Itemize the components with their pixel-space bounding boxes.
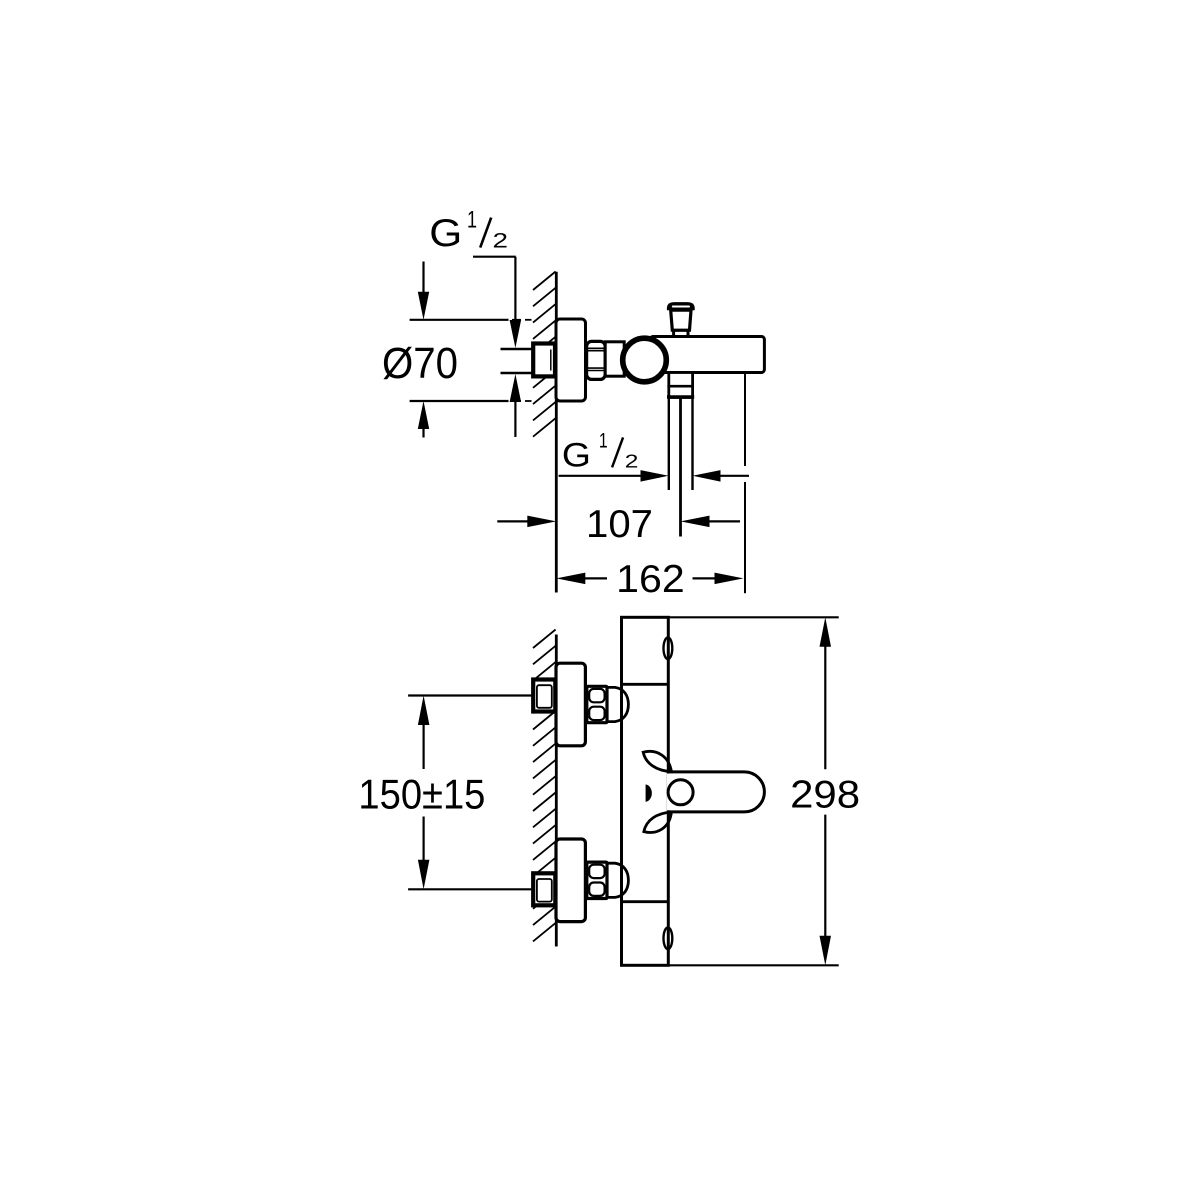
svg-text:G: G [429, 212, 462, 255]
dim 107 left arrow [527, 516, 556, 528]
square nut inner line [537, 685, 552, 708]
thermostat cartridge circle [623, 338, 667, 382]
dim 150 line lower [423, 817, 425, 861]
supply pipe stub bottom edge [501, 372, 534, 375]
hose centerline [679, 398, 682, 537]
svg-text:G: G [562, 437, 591, 475]
wall face line (top view) [555, 272, 558, 593]
extension line bath outlet axis upper [744, 373, 746, 467]
hose nut top line [667, 385, 694, 388]
valve body (top view) [650, 337, 764, 373]
O70 bottom extension line [410, 400, 509, 402]
O70 top ext dash [512, 319, 521, 321]
dim 150 line upper [423, 725, 425, 770]
dim 107 right tail [709, 520, 741, 522]
dim 298 line lower [824, 815, 826, 937]
diverter knob collar [674, 330, 688, 336]
svg-text:1: 1 [599, 430, 608, 453]
dim 162 right arrow [715, 573, 744, 585]
O70 dim line lower tail [422, 428, 424, 438]
hex nut lower facet window [589, 707, 604, 720]
svg-text:2: 2 [493, 229, 509, 253]
hex nut upper facet window [589, 689, 604, 702]
arrow tail below [514, 401, 516, 438]
svg-text:1: 1 [467, 206, 477, 233]
hex nut frame [587, 686, 607, 722]
body section line bottom [622, 900, 669, 903]
union hex nut (top view) [587, 341, 606, 379]
diverter knob (front view) [668, 780, 693, 805]
O70 dim line upper tail [422, 262, 424, 294]
dim 298 arrow up [820, 617, 832, 647]
O70 top extension line [410, 319, 509, 321]
dim 298 arrow down [820, 936, 832, 966]
escutcheon flange (front view) [556, 839, 585, 922]
O70 arrow down [418, 292, 429, 320]
wall face line (front view) [555, 635, 558, 947]
union connector piece [605, 342, 624, 376]
G1/2 outlet arrow right [641, 470, 669, 482]
dim 162 line left segment [584, 577, 607, 579]
hose right edge [691, 398, 693, 491]
diverter knob cap [667, 302, 695, 310]
leader under G1/2 label [473, 256, 516, 258]
square wall-union nut (front view) [533, 680, 555, 712]
G1/2 outlet dim line left [559, 475, 641, 477]
diverter knob neck [671, 310, 691, 330]
bath spout (mask) [667, 774, 745, 811]
square nut inner facet line [550, 350, 552, 371]
wall (hatched, top view) [533, 272, 556, 291]
svg-text:162: 162 [616, 558, 685, 601]
square wall-union nut (top view) [533, 344, 555, 377]
square wall-union nut (front view) [533, 873, 555, 905]
extension line bath outlet axis lower [744, 482, 746, 593]
wall (hatched, front view) [533, 630, 556, 649]
hex nut facet line [588, 347, 605, 349]
dim 150 top extension line [408, 694, 532, 696]
escutcheon flange (front view) [556, 663, 585, 746]
port boss bottom (edge-on ellipse) [664, 928, 673, 950]
hose left edge [668, 398, 670, 491]
escutcheon flange (top view) [556, 319, 586, 401]
dim 162 left arrow [556, 573, 585, 585]
G1/2 outlet arrow left [693, 470, 721, 482]
dim 150 bottom extension line [408, 888, 532, 890]
union dome [607, 687, 628, 721]
O70 bottom ext dash [525, 400, 532, 402]
svg-text:107: 107 [586, 503, 653, 546]
label G 1/2 (wall connection thread) [429, 206, 508, 255]
G1/2 outlet dim line right [720, 475, 750, 477]
body section line top [622, 683, 669, 686]
hex nut facet line [588, 350, 605, 352]
union dome [607, 863, 628, 897]
O70 top ext dash [525, 319, 532, 321]
dim 298 bottom extension [668, 964, 838, 966]
svg-text:298: 298 [790, 774, 860, 817]
lower lever leaf [644, 812, 672, 832]
square nut inner line [537, 879, 552, 902]
dim 150 arrow down [418, 860, 430, 890]
hex nut frame [587, 862, 607, 898]
hex nut facet line [588, 367, 605, 369]
bath spout [668, 772, 764, 812]
dim 107 right arrow [681, 516, 710, 528]
svg-text:2: 2 [625, 451, 639, 472]
hex nut upper facet window [589, 865, 604, 878]
dim 150 arrow up [418, 696, 430, 726]
thermostat body (front view) [622, 617, 669, 965]
supply pipe stub top edge [501, 348, 534, 351]
hose nut bottom line [667, 395, 694, 398]
port boss top (edge-on ellipse) [664, 638, 673, 660]
arrow up to pipe bottom [510, 374, 521, 402]
hex nut facet line [588, 370, 605, 372]
svg-text:Ø70: Ø70 [382, 339, 458, 388]
dim 298 top extension [668, 616, 838, 618]
O70 bottom ext dash [512, 400, 521, 402]
arrow down to pipe top [510, 320, 521, 348]
upper lever leaf [643, 751, 671, 771]
lever grip (edge-on, filled) [646, 784, 652, 802]
diverter knob cap highlight [672, 306, 690, 308]
dim 298 line upper [824, 646, 826, 769]
O70 arrow up [418, 401, 429, 429]
dim 162 line right segment [693, 577, 717, 579]
leader vertical [514, 257, 516, 323]
svg-text:150±15: 150±15 [358, 771, 485, 818]
label G 1/2 (shower hose thread) [562, 430, 639, 475]
dim 107 left tail [497, 520, 529, 522]
shower outlet nipple [669, 373, 693, 398]
hex nut lower facet window [589, 883, 604, 896]
